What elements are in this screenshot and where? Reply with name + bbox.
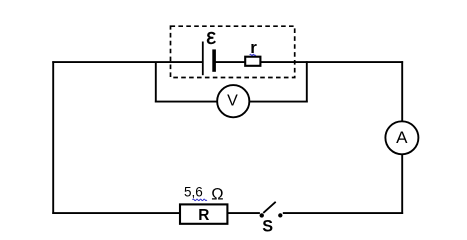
wire battery to resistor r [216,61,247,63]
resistor R [180,204,227,223]
wire resistor R to switch [227,212,260,214]
wire right vertical lower (ammeter to bottom) [401,154,403,214]
wire left vertical [52,61,54,214]
svg-text:A: A [396,128,408,147]
svg-text:Ω: Ω [211,186,223,204]
wire switch to bottom-right corner [283,212,403,214]
wire top horizontal (node to battery) [52,61,203,63]
voltmeter V [217,85,249,117]
battery cell: thin long electrode [202,42,204,76]
ammeter A [385,121,418,154]
dashed box around battery [171,26,295,77]
switch S lever [263,202,275,213]
switch S right contact dot [278,213,282,217]
wire bottom horizontal left (to resistor R) [52,212,181,214]
switch S left contact dot [260,213,264,217]
svg-text:S: S [262,218,273,236]
node T-junction left of voltmeter branch [155,62,157,102]
resistor r (internal resistance) [245,57,260,66]
svg-text:V: V [227,93,238,110]
svg-text:R: R [198,207,209,224]
wire voltmeter branch right horizontal [249,101,308,103]
battery cell: thick short electrode [212,49,216,71]
wire right vertical upper (to ammeter) [401,61,403,122]
node T-junction right of voltmeter branch [306,61,308,102]
squiggle under r [250,54,256,55]
wire resistor r to top-right corner [260,61,403,63]
svg-text:5,6: 5,6 [184,184,203,199]
squiggle under 5,6 [193,199,207,201]
svg-text:ε: ε [206,24,216,49]
wire voltmeter branch left horizontal [155,101,218,103]
